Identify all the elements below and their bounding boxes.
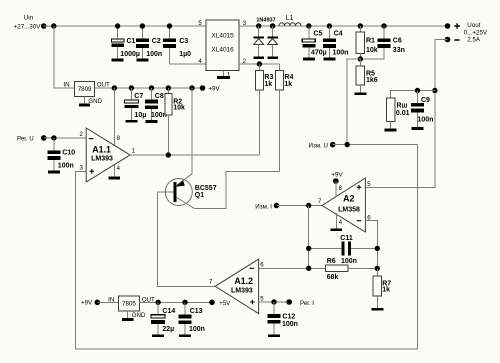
svg-text:33n: 33n — [393, 47, 405, 54]
ground C12 — [268, 334, 280, 337]
op-amp A2 LM358 — [318, 178, 371, 232]
svg-text:1N4937: 1N4937 — [256, 18, 275, 24]
svg-text:+27...30V: +27...30V — [14, 24, 42, 31]
junction C10 tap — [51, 135, 56, 140]
svg-text:68k: 68k — [327, 274, 339, 281]
svg-text:100n: 100n — [333, 50, 349, 57]
resistor R2 — [165, 85, 185, 155]
node Izm.I terminal — [255, 203, 279, 211]
capacitor C8 — [145, 85, 167, 120]
ground C7 — [126, 120, 138, 123]
wire +9V to 7805 IN — [97, 301, 118, 303]
ground XL4015 pin 1 — [217, 76, 230, 79]
resistor R6 — [259, 258, 378, 281]
svg-text:GND: GND — [88, 98, 102, 105]
wire - terminal down to A2 pin 5 — [365, 40, 447, 188]
regulator U2 7809 — [63, 81, 110, 105]
svg-text:+5V: +5V — [219, 300, 231, 307]
capacitor C12 — [268, 302, 298, 334]
node Izm.U measurement terminal — [309, 142, 336, 150]
junction on minus line at shunt wire — [432, 88, 437, 93]
capacitor C1 — [111, 23, 140, 58]
svg-text:100n: 100n — [341, 258, 357, 265]
svg-text:XL4016: XL4016 — [211, 47, 234, 54]
svg-text:100n: 100n — [189, 326, 205, 333]
capacitor C14 — [151, 300, 175, 335]
node output - terminal — [445, 37, 460, 43]
svg-text:10µ: 10µ — [135, 112, 147, 119]
svg-text:10k: 10k — [366, 47, 378, 54]
resistor R5 — [356, 59, 378, 92]
wire A1.2 output to Q1 base — [158, 192, 216, 287]
diode VD1 1N4937 — [253, 23, 264, 56]
svg-text:C9: C9 — [421, 97, 430, 104]
ground C13 — [179, 334, 191, 337]
wire +9V rail from 7809 OUT — [95, 87, 203, 89]
ground C8 — [146, 120, 158, 123]
svg-text:LM393: LM393 — [231, 288, 253, 295]
svg-text:L1: L1 — [286, 15, 294, 22]
svg-text:C2: C2 — [152, 38, 161, 45]
ground A2 pin 4 — [331, 228, 342, 231]
diode VD2 1N4937 — [267, 23, 278, 56]
inductor L1 — [279, 15, 301, 26]
op-amp A1.1 LM393 — [79, 128, 135, 182]
ground VD2 — [267, 57, 278, 59]
node Uin input terminal — [14, 15, 47, 31]
svg-text:R1: R1 — [366, 37, 375, 44]
svg-text:OUT: OUT — [97, 81, 110, 88]
svg-text:C3: C3 — [179, 38, 188, 45]
svg-text:C6: C6 — [393, 37, 402, 44]
svg-text:10k: 10k — [173, 105, 185, 112]
ground A1.1 pin 4 — [109, 177, 121, 180]
wire A1.1 pin 8 to +9V rail — [112, 85, 117, 145]
IC U1 XL4015/XL4016 — [198, 20, 246, 79]
svg-text:22µ: 22µ — [162, 326, 174, 333]
ground C2 — [136, 58, 148, 61]
svg-text:100n: 100n — [418, 116, 434, 123]
capacitor C2 — [136, 23, 162, 58]
node +9V terminal bottom left — [81, 300, 100, 307]
resistor R4 — [275, 64, 293, 171]
junction Izm.U / R1R5 branch — [345, 142, 350, 147]
svg-text:C10: C10 — [62, 150, 75, 157]
svg-text:+9V: +9V — [331, 172, 343, 179]
wire 7805 OUT +5V rail — [140, 301, 213, 303]
svg-text:Uout: Uout — [467, 22, 480, 29]
wire Izm.I to A2 output pin 7 — [277, 205, 323, 207]
resistor R1 — [356, 23, 378, 59]
svg-text:1k: 1k — [382, 287, 390, 294]
wire Izm.I node down to C11/R6 — [308, 206, 310, 269]
svg-text:C12: C12 — [282, 313, 295, 320]
svg-text:Uin: Uin — [24, 15, 34, 22]
svg-text:IN: IN — [63, 81, 69, 88]
capacitor C7 — [124, 85, 146, 120]
node +5V terminal — [209, 300, 231, 307]
junction R6/R7/pin6 — [375, 266, 380, 271]
resistor Rsh 0.01 shunt — [386, 98, 409, 128]
wire Per.U to A1.1 pin 2 — [44, 137, 86, 139]
wire XL4015 pin 2 — [239, 63, 280, 65]
node Per.I terminal — [286, 299, 314, 307]
junction R2 bottom on output wire — [166, 152, 171, 157]
ground VD1 — [253, 57, 264, 59]
wire A1.2 pin 5 to Per.I — [259, 301, 290, 303]
resistor R7 — [373, 268, 391, 308]
svg-text:C7: C7 — [134, 93, 143, 100]
svg-text:7805: 7805 — [122, 301, 136, 308]
ground C14 — [152, 334, 164, 337]
ground C4 — [323, 58, 335, 61]
wire C3 bottom to XL4015 pin 4 — [170, 48, 207, 64]
wire A1.1 output pin 1 — [130, 154, 259, 156]
svg-text:1k: 1k — [284, 81, 292, 88]
junction at Uin branch — [51, 23, 56, 28]
svg-text:100n: 100n — [282, 321, 298, 328]
svg-text:Q1: Q1 — [195, 192, 204, 199]
svg-text:LM358: LM358 — [338, 206, 360, 213]
wire big feedback loop to A1.1 pin 3 — [76, 145, 418, 349]
svg-text:C1: C1 — [127, 38, 136, 45]
node output + terminal — [445, 22, 488, 43]
node Per.U terminal — [17, 135, 47, 143]
svg-text:C8: C8 — [155, 93, 164, 100]
svg-text:0...+25V: 0...+25V — [464, 30, 488, 37]
svg-text:1k6: 1k6 — [366, 77, 378, 84]
capacitor C11 — [306, 235, 380, 265]
svg-text:C13: C13 — [190, 308, 203, 315]
ground Rsh — [385, 128, 397, 131]
wire shunt top rail — [391, 91, 435, 99]
wire top input rail — [44, 25, 207, 27]
transistor Q1 BC557 — [158, 174, 217, 209]
regulator U3 7805 — [108, 296, 155, 319]
op-amp A1.2 LM393 — [209, 259, 264, 314]
wire from input rail down to 7809 IN — [54, 26, 75, 88]
wire R1/R5 node to Izm.U line — [347, 59, 360, 145]
capacitor C6 — [360, 23, 405, 59]
junction R1/R5/C6 node — [358, 56, 363, 61]
capacitor C9 — [411, 88, 433, 127]
svg-text:C14: C14 — [162, 308, 175, 315]
ground C9 — [412, 127, 424, 130]
svg-text:Изм. I: Изм. I — [255, 203, 272, 210]
svg-text:0.01: 0.01 — [396, 110, 410, 117]
resistor R3 — [255, 61, 273, 155]
ground R5 — [354, 92, 366, 95]
svg-text:A1.1: A1.1 — [92, 144, 111, 154]
svg-text:+9V: +9V — [208, 86, 220, 93]
capacitor C13 — [178, 300, 205, 335]
svg-text:Рег. U: Рег. U — [17, 136, 34, 143]
svg-text:R6: R6 — [327, 258, 336, 265]
svg-text:C4: C4 — [334, 30, 343, 37]
wire A2 pin 6 down to R6/R7 node — [365, 221, 377, 269]
svg-text:R4: R4 — [284, 74, 293, 81]
svg-text:GND: GND — [132, 312, 146, 319]
ground 7809 — [79, 104, 90, 107]
svg-text:470µ: 470µ — [311, 50, 327, 57]
node +9V terminal — [200, 85, 221, 92]
svg-text:XL4015: XL4015 — [211, 33, 234, 40]
junction C12 tap — [271, 299, 276, 304]
svg-text:1000µ: 1000µ — [120, 51, 140, 58]
svg-text:C5: C5 — [314, 30, 323, 37]
node +9V terminal above A2 pin 8 — [331, 172, 343, 197]
svg-text:7809: 7809 — [78, 86, 92, 93]
svg-text:A2: A2 — [343, 194, 354, 204]
capacitor C4 — [323, 23, 349, 57]
capacitor C5 — [302, 23, 326, 57]
ground R7 — [371, 308, 383, 311]
svg-text:A1.2: A1.2 — [234, 276, 253, 286]
svg-text:100n: 100n — [146, 51, 162, 58]
wire XL4015 pin 3 output rail — [239, 25, 448, 27]
wire Q1 collector to R4 bottom — [195, 171, 280, 208]
svg-text:Rш: Rш — [397, 103, 408, 110]
wire A2 pin 4 to ground — [336, 213, 338, 228]
capacitor C3 — [163, 23, 191, 58]
ground C10 — [48, 171, 60, 174]
svg-text:R3: R3 — [264, 74, 273, 81]
svg-text:C11: C11 — [340, 235, 353, 242]
svg-text:100n: 100n — [58, 163, 74, 170]
svg-text:Рег. I: Рег. I — [300, 300, 314, 307]
wire Izm.U to feedback loop — [333, 144, 418, 146]
wire Q1 emitter to +9V rail — [189, 85, 194, 174]
ground C5 — [303, 58, 315, 61]
svg-text:Изм. U: Изм. U — [309, 143, 328, 150]
svg-text:2.5A: 2.5A — [467, 37, 481, 44]
svg-text:1k: 1k — [264, 81, 272, 88]
svg-text:+9V: +9V — [81, 300, 93, 307]
ground C1 — [112, 58, 124, 61]
junction Izm.I branch — [306, 203, 311, 208]
capacitor C10 — [47, 138, 75, 171]
svg-text:IN: IN — [108, 297, 114, 304]
svg-text:1µ0: 1µ0 — [179, 51, 191, 58]
ground 7805 — [122, 318, 134, 321]
svg-text:LM393: LM393 — [91, 155, 113, 162]
